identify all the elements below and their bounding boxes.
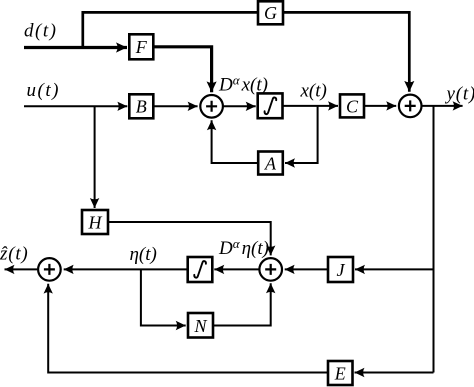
wire: u(t) input to B	[24, 105, 127, 107]
svg-text:J: J	[337, 260, 346, 280]
svg-text:Dαη(t): Dαη(t)	[218, 236, 269, 259]
integrator I2	[188, 257, 213, 282]
wire: S2 to y(t) output	[422, 105, 462, 107]
wire: J to sum S3	[285, 268, 328, 270]
svg-text:u(t): u(t)	[27, 80, 60, 101]
summing junction S2	[399, 95, 422, 118]
wire: d(t) input to F (bold)	[24, 46, 127, 49]
svg-text:H: H	[88, 213, 103, 233]
svg-text:y(t): y(t)	[445, 84, 474, 105]
wire: C to sum S2	[364, 105, 396, 107]
wire: B to sum S1	[153, 105, 197, 107]
summing junction S1	[200, 95, 223, 118]
block B	[129, 94, 153, 118]
wire: x(t) tap down and left into A	[285, 106, 318, 163]
svg-text:d(t): d(t)	[24, 21, 57, 42]
summing junction S3	[259, 258, 282, 281]
wire: S4 to z-hat output	[5, 268, 38, 270]
block C	[340, 94, 364, 117]
wire: S1 to integrator I1	[224, 105, 256, 107]
wire: G output across and down into sum S2 (bold)	[283, 12, 409, 91]
svg-text:N: N	[193, 316, 207, 336]
wire: bottom feedback into E	[355, 372, 434, 374]
svg-text:E: E	[334, 364, 346, 384]
svg-text:A: A	[264, 154, 277, 174]
wire: H output right and down into S3 top	[108, 222, 271, 255]
wire: branch to J	[355, 268, 434, 270]
wire: u tap down to H	[94, 106, 96, 208]
summing junction S4	[38, 258, 61, 281]
svg-text:G: G	[264, 3, 277, 23]
svg-text:x(t): x(t)	[300, 81, 327, 102]
svg-text:B: B	[136, 97, 147, 117]
wire: y tap down the right side	[433, 106, 435, 373]
block H	[82, 210, 108, 234]
wire: d branch up to top line and across to G (bold)	[83, 12, 258, 47]
wire: F output right then down into sum S1 (bold)	[153, 47, 211, 93]
block E	[328, 361, 353, 385]
svg-text:ẑ(t): ẑ(t)	[0, 244, 29, 265]
block G	[258, 1, 283, 24]
wire: I2 output eta(t) to sum S4	[64, 268, 188, 270]
wire: N output right and up into S3 bottom	[213, 283, 271, 325]
wire: S3 to integrator I2	[214, 268, 258, 270]
svg-text:η(t): η(t)	[130, 244, 157, 265]
integrator I1	[258, 93, 283, 118]
svg-text:Dαx(t): Dαx(t)	[218, 73, 268, 96]
block F	[129, 34, 153, 59]
block J	[328, 257, 353, 282]
svg-text:F: F	[135, 37, 148, 57]
wire: A output left and up into S1 bottom	[212, 120, 258, 163]
block A	[258, 152, 283, 175]
wire: E output left and up into S4 bottom	[48, 284, 328, 373]
wire: eta tap down and right into N	[141, 269, 186, 325]
svg-text:C: C	[346, 97, 359, 117]
block N	[188, 313, 213, 338]
wire: I1 output x(t) to C	[283, 105, 339, 107]
